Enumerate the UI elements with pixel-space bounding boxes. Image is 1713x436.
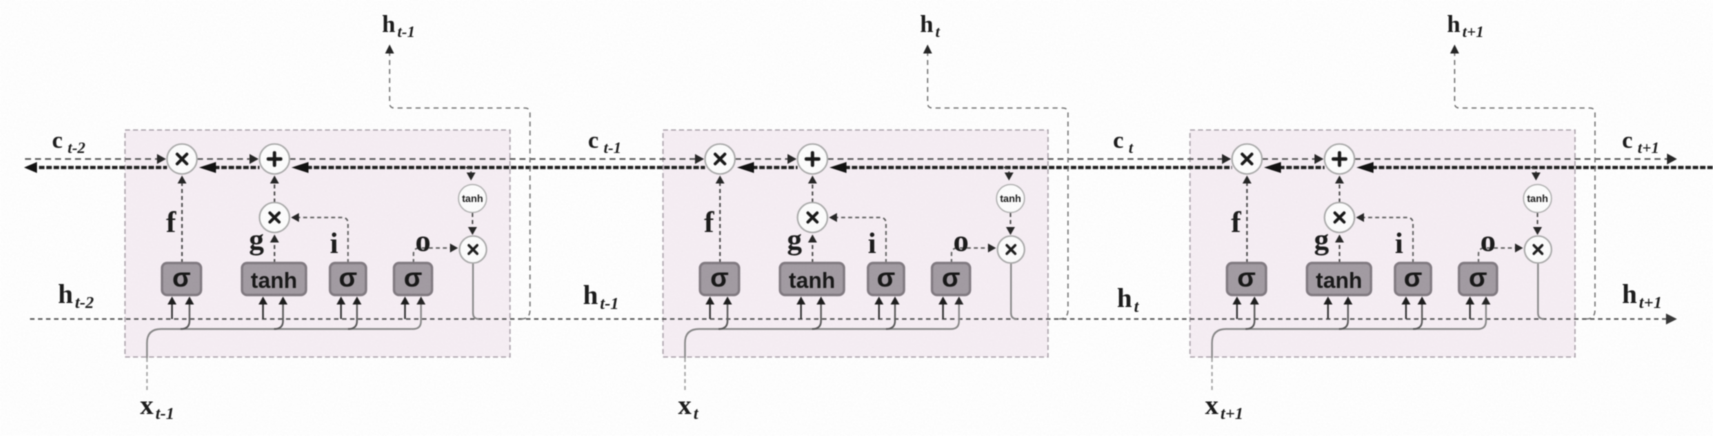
- arrowhead: c into + circle: [788, 154, 797, 164]
- arrowhead: x into o gate, cell 2: [955, 297, 964, 305]
- wire: x input dashed lead below cell, cell 3: [1211, 358, 1213, 393]
- arrowhead: f into x circle, cell 2: [716, 176, 725, 184]
- output multiply circle, cell 3: [1525, 236, 1552, 263]
- arrowhead: x into input gate σ, cell 2: [891, 297, 900, 305]
- arrowhead: h into forget gate σ, cell 2: [706, 297, 715, 305]
- wire: h input arrow into forget gate σ, cell 1: [171, 300, 173, 319]
- arrowhead: x into o gate, cell 3: [1482, 297, 1491, 305]
- arrowhead: x into cell gate tanh, cell 1: [279, 297, 288, 305]
- wire: f gate output up to x circle, cell 1: [181, 178, 183, 263]
- arrowhead: c into + circle: [1315, 154, 1324, 164]
- LSTM cell 3 body: [1190, 130, 1575, 357]
- wire: h input arrow into forget gate σ, cell 3: [1236, 300, 1238, 319]
- wire: c branch down into tanh circle, cell 3: [1531, 168, 1536, 177]
- wire: hidden-state line h (dashed, bottom): [30, 318, 1666, 320]
- forget gate σ box, cell 3: [1227, 263, 1266, 295]
- arrowhead: into output x circle, cell 3: [1533, 227, 1542, 235]
- arrowhead: x into input gate σ, cell 3: [1418, 297, 1427, 305]
- arrowhead: f into x circle, cell 1: [178, 176, 187, 184]
- wire: h branch up from h line to top output, cell 1: [390, 49, 530, 319]
- arrowhead: g into mid x circle, cell 3: [1335, 235, 1344, 243]
- cell gate tanh box, cell 1: [242, 263, 306, 295]
- wire: h input arrow into cell gate tanh, cell 1: [262, 300, 264, 319]
- multiply circle on c line (forget), cell 2: [705, 144, 735, 174]
- arrowhead: h into forget gate σ, cell 1: [168, 297, 177, 305]
- arrowhead: into tanh circle, cell 3: [1532, 173, 1541, 181]
- arrowhead: c into x-gate circle: [695, 154, 704, 164]
- wire: g gate output up to mid x circle, cell 2: [812, 237, 814, 263]
- arrowhead: h into output gate σ, cell 2: [939, 297, 948, 305]
- arrowhead: h into output gate σ, cell 3: [1466, 297, 1475, 305]
- arrowhead: thick line left arrow 7: [1357, 162, 1374, 173]
- wire: h input arrow into cell gate tanh, cell 3: [1327, 300, 1329, 319]
- wire: h input arrow into output gate σ, cell 3: [1469, 300, 1471, 319]
- wire: x input distribution line inside cell, cell 3: [1212, 300, 1486, 358]
- wire: cell-state line c (thin dashed, left to right): [25, 158, 1668, 160]
- arrowhead: h into input gate σ, cell 1: [337, 297, 346, 305]
- arrowhead: o into output x circle, cell 2: [988, 244, 996, 253]
- multiply circle input gate, cell 1: [260, 203, 290, 233]
- arrowhead: c into x-gate circle: [1222, 154, 1231, 164]
- add circle on c line, cell 3: [1325, 144, 1355, 174]
- arrowhead: x into forget gate σ, cell 1: [185, 297, 194, 305]
- wire: tanh circle down to output x circle, cell 1: [472, 213, 474, 232]
- wire: output x circle down to h line, cell 3: [1538, 264, 1544, 320]
- input gate σ box, cell 1: [330, 263, 366, 295]
- wire: x input arrow into forget gate σ, cell 2: [719, 300, 728, 329]
- wire: x input distribution line inside cell, cell 1: [147, 300, 421, 358]
- LSTM cell 1 body: [125, 130, 510, 357]
- arrowhead: into + circle, cell 2: [808, 176, 817, 184]
- arrowhead: g into mid x circle, cell 1: [270, 235, 279, 243]
- arrowhead: into tanh circle, cell 1: [467, 173, 476, 181]
- add circle on c line, cell 1: [260, 144, 290, 174]
- arrowhead: h_t output up, cell 1: [385, 45, 394, 54]
- cell gate tanh box, cell 2: [780, 263, 844, 295]
- arrowhead: h_t output up, cell 2: [923, 45, 932, 54]
- wire: h input arrow into input gate σ, cell 1: [340, 300, 342, 319]
- wire: i gate output elbow into mid x circle, cell 2: [831, 218, 887, 264]
- tanh circle, cell 2: [997, 185, 1025, 213]
- arrowhead: f into x circle, cell 3: [1243, 176, 1252, 184]
- input gate σ box, cell 3: [1395, 263, 1431, 295]
- wire: x input arrow into forget gate σ, cell 3: [1246, 300, 1255, 329]
- wire: h branch up from h line to top output, cell 3: [1455, 49, 1595, 319]
- wire: i gate output elbow into mid x circle, cell 1: [293, 218, 349, 264]
- multiply circle input gate, cell 3: [1325, 203, 1355, 233]
- wire: x input dashed lead below cell, cell 2: [684, 358, 686, 393]
- wire: o gate output elbow into output x circle, cell 2: [952, 248, 995, 263]
- arrowhead: c into + circle: [250, 154, 259, 164]
- wire: output x circle down to h line, cell 1: [473, 264, 479, 320]
- output gate σ box, cell 2: [932, 263, 970, 295]
- multiply circle on c line (forget), cell 1: [167, 144, 197, 174]
- output multiply circle, cell 1: [460, 236, 487, 263]
- arrowhead: o into output x circle, cell 3: [1515, 244, 1523, 253]
- LSTM cell 2 body: [663, 130, 1048, 357]
- arrowhead: thick line left arrow 5: [830, 162, 847, 173]
- add circle on c line, cell 2: [798, 144, 828, 174]
- arrowhead: x into input gate σ, cell 1: [353, 297, 362, 305]
- forget gate σ box, cell 2: [700, 263, 739, 295]
- arrowhead: i into mid x circle, cell 3: [1356, 213, 1364, 222]
- forget gate σ box, cell 1: [162, 263, 201, 295]
- arrowhead: o into output x circle, cell 1: [450, 244, 458, 253]
- arrowhead: c into x-gate circle: [157, 154, 166, 164]
- multiply circle input gate, cell 2: [798, 203, 828, 233]
- wire: c branch down into tanh circle, cell 1: [466, 168, 471, 177]
- wire: c branch down into tanh circle, cell 2: [1004, 168, 1009, 177]
- output gate σ box, cell 3: [1459, 263, 1497, 295]
- arrowhead: x into forget gate σ, cell 3: [1250, 297, 1259, 305]
- wire: x input arrow into cell gate tanh, cell 1: [274, 300, 283, 329]
- arrowhead: h into cell gate tanh, cell 3: [1324, 297, 1333, 305]
- wire: thick dashed recurrent line with left arrows: [39, 166, 1713, 169]
- arrowhead: h into output gate σ, cell 1: [401, 297, 410, 305]
- arrowhead: into tanh circle, cell 2: [1005, 173, 1014, 181]
- wire: x input arrow into cell gate tanh, cell 2: [812, 300, 821, 329]
- output gate σ box, cell 1: [394, 263, 432, 295]
- multiply circle on c line (forget), cell 3: [1232, 144, 1262, 174]
- arrowhead: h into forget gate σ, cell 3: [1233, 297, 1242, 305]
- wire: h input arrow into forget gate σ, cell 2: [709, 300, 711, 319]
- wire: f gate output up to x circle, cell 2: [719, 178, 721, 263]
- arrowhead: g into mid x circle, cell 2: [808, 235, 817, 243]
- wire: mid x circle up to + circle, cell 1: [274, 178, 276, 203]
- input gate σ box, cell 2: [868, 263, 904, 295]
- arrowhead: h into input gate σ, cell 3: [1402, 297, 1411, 305]
- arrowhead: into output x circle, cell 2: [1006, 227, 1015, 235]
- arrowhead: thick line left arrow 3: [292, 162, 309, 173]
- wire: x input arrow into input gate σ, cell 2: [886, 300, 895, 329]
- arrowhead: thick line left arrow 4: [737, 162, 754, 173]
- wire: output x circle down to h line, cell 2: [1011, 264, 1017, 320]
- arrowhead: h into cell gate tanh, cell 2: [797, 297, 806, 305]
- wire: f gate output up to x circle, cell 3: [1246, 178, 1248, 263]
- arrowhead: into output x circle, cell 1: [468, 227, 477, 235]
- arrowhead: x into forget gate σ, cell 2: [723, 297, 732, 305]
- wire: h input arrow into cell gate tanh, cell 2: [800, 300, 802, 319]
- wire: h input arrow into input gate σ, cell 2: [878, 300, 880, 319]
- arrowhead: thick line left arrow 1: [24, 162, 37, 173]
- arrowhead: thick line left arrow 6: [1264, 162, 1281, 173]
- arrowhead: h into input gate σ, cell 2: [875, 297, 884, 305]
- cell gate tanh box, cell 3: [1307, 263, 1371, 295]
- tanh circle, cell 1: [459, 185, 487, 213]
- arrowhead: into + circle, cell 3: [1335, 176, 1344, 184]
- wire: tanh circle down to output x circle, cell 3: [1537, 213, 1539, 232]
- wire: x input distribution line inside cell, cell 2: [685, 300, 959, 358]
- arrowhead: h_t+1 output right end: [1666, 314, 1677, 325]
- output multiply circle, cell 2: [998, 236, 1025, 263]
- wire: o gate output elbow into output x circle, cell 1: [414, 248, 457, 263]
- wire: mid x circle up to + circle, cell 3: [1339, 178, 1341, 203]
- arrowhead: h into cell gate tanh, cell 1: [259, 297, 268, 305]
- wire: x input arrow into cell gate tanh, cell 3: [1339, 300, 1348, 329]
- arrowhead: x into cell gate tanh, cell 3: [1344, 297, 1353, 305]
- wire: h input arrow into output gate σ, cell 2: [942, 300, 944, 319]
- arrowhead: x into o gate, cell 1: [417, 297, 426, 305]
- arrowhead: thick line left arrow 2: [199, 162, 216, 173]
- arrowhead: c_t+1 output right end: [1667, 154, 1677, 165]
- arrowhead: x into cell gate tanh, cell 2: [817, 297, 826, 305]
- wire: x input arrow into input gate σ, cell 1: [348, 300, 357, 329]
- wire: x input dashed lead below cell, cell 1: [146, 358, 148, 393]
- arrowhead: h_t output up, cell 3: [1450, 45, 1459, 54]
- arrowhead: into + circle, cell 1: [270, 176, 279, 184]
- arrowhead: i into mid x circle, cell 2: [829, 213, 837, 222]
- wire: x input arrow into forget gate σ, cell 1: [181, 300, 190, 329]
- arrowhead: i into mid x circle, cell 1: [291, 213, 299, 222]
- wire: h input arrow into output gate σ, cell 1: [404, 300, 406, 319]
- wire: g gate output up to mid x circle, cell 1: [274, 237, 276, 263]
- wire: g gate output up to mid x circle, cell 3: [1339, 237, 1341, 263]
- wire: h input arrow into input gate σ, cell 3: [1405, 300, 1407, 319]
- wire: i gate output elbow into mid x circle, cell 3: [1358, 218, 1414, 264]
- wire: o gate output elbow into output x circle, cell 3: [1479, 248, 1522, 263]
- wire: mid x circle up to + circle, cell 2: [812, 178, 814, 203]
- wire: x input arrow into input gate σ, cell 3: [1413, 300, 1422, 329]
- tanh circle, cell 3: [1524, 185, 1552, 213]
- wire: h branch up from h line to top output, cell 2: [928, 49, 1068, 319]
- wire: tanh circle down to output x circle, cell 2: [1010, 213, 1012, 232]
